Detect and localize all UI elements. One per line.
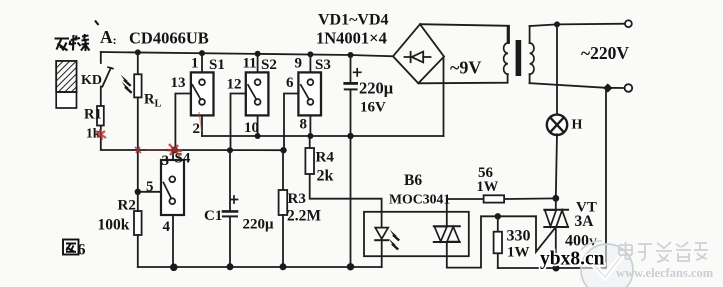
watermark disc elecfans [581,241,633,287]
node R3 pin6 junction [280,147,286,153]
wire to S4 pin5 [138,191,161,193]
svg-text:1W: 1W [477,179,499,195]
terminal 220V bottom [625,84,633,92]
svg-text:11: 11 [243,56,257,72]
svg-text:1W: 1W [507,245,530,261]
triac VT [555,198,557,210]
node S2 pin11 top [255,51,261,57]
wire 56R row [447,197,556,200]
wire lamp branch down [556,24,558,115]
svg-text:9: 9 [295,56,303,72]
svg-text:~220V: ~220V [581,43,629,63]
wire S1 pin13 [175,94,191,151]
node S3 pin8 R4 [307,133,313,139]
node C2 top [348,52,354,58]
node S4 pin3 junction [171,147,178,154]
node VT bottom [553,265,560,272]
wire RL down to R2 junction [137,97,139,191]
wire MOC triac MT1 loop [447,216,536,267]
resistor R3 [282,150,284,190]
switch S4 [161,160,184,215]
wire top bus [101,52,393,56]
svg-text:R4: R4 [316,150,335,166]
wire bridge AC bottom to transformer [418,74,507,83]
svg-text:RL: RL [144,92,162,110]
node VT top junction [552,195,559,202]
svg-text:3: 3 [162,153,170,169]
svg-text:~9V: ~9V [450,58,481,78]
bridge rectifier VD1-VD4 [393,24,444,83]
switch S1 [201,53,203,72]
svg-text:220μ: 220μ [243,217,275,233]
arrows light onto RL [121,75,133,94]
node C1 pin12 junction [227,147,233,153]
lamp H [547,115,567,135]
wire R1 to line150 [101,126,138,151]
photoresistor RL wire [137,52,139,74]
svg-text:R3: R3 [288,191,306,207]
svg-text:KD: KD [81,73,102,88]
magnet box [56,61,76,108]
svg-text:8: 8 [300,117,308,133]
node C2 bottom line136 [347,133,353,139]
tick mark top left [95,21,99,26]
node C1 bottom [227,263,234,270]
svg-text:3A: 3A [575,213,595,230]
svg-text:ybx8.cn: ybx8.cn [540,249,605,270]
capacitor C1 [229,150,231,211]
wire bottom right bus [498,88,606,268]
svg-text:6: 6 [286,75,294,91]
switch S2 [257,54,259,73]
svg-text:12: 12 [227,77,242,93]
svg-text:13: 13 [171,75,186,91]
terminal 220V top [625,20,632,27]
wire R4 to MOC LED [310,174,382,212]
node diamond junction [603,83,612,92]
wire R2 leads [137,192,139,267]
svg-text:4: 4 [163,219,171,235]
svg-text:CD4066UB: CD4066UB [129,29,209,48]
transformer T [504,43,508,74]
wire line150 [138,149,284,151]
svg-text:1: 1 [191,56,199,72]
svg-text:www.elecfans.com: www.elecfans.com [616,266,714,280]
node RL top [135,49,141,55]
svg-text:A:: A: [100,27,117,47]
switch KD [100,52,102,63]
wire line136 to bridge DC- [443,57,445,136]
photoresistor RL [134,74,141,97]
resistor R2 [134,211,142,235]
triac inside MOC [446,199,448,226]
label tu6 (figure 6) hand-drawn [63,240,86,259]
wire S4 pin4 down [172,215,174,267]
svg-text:2: 2 [193,121,201,137]
wire primary top to 220V terminal [530,24,628,26]
switch S3 [309,54,311,72]
svg-text:400V: 400V [565,233,597,250]
capacitor C2 220u16V [350,55,352,83]
red pen artifacts [96,112,202,156]
svg-text:VD1~VD4: VD1~VD4 [318,12,389,29]
svg-text:S1: S1 [209,57,225,73]
wire S3 pin8 down [309,115,311,136]
svg-text:B6: B6 [404,172,422,189]
svg-text:2k: 2k [317,168,334,185]
svg-text:MOC3041: MOC3041 [389,192,450,207]
wire line136 [202,135,444,137]
node 330 top [495,213,501,219]
wire primary bottom to 220V terminal [530,83,624,88]
wire S2 pin12 [231,94,246,151]
svg-text:16V: 16V [360,100,386,116]
wire bottom main bus [138,266,382,268]
node lamp branch [554,21,560,27]
node S2 pin10 [255,133,261,139]
svg-text:H: H [572,118,583,133]
svg-text:2.2M: 2.2M [287,208,321,225]
watermark dianzifashaoyou gray text [619,242,708,262]
node R3 bottom [280,263,287,270]
svg-text:S2: S2 [261,57,277,73]
arrows LED light [389,230,401,251]
node S1 pin1 top [199,50,205,56]
gate wire VT [536,216,556,252]
optocoupler B6 MOC3041 box [364,212,469,256]
wire KD to R1 [100,87,102,107]
svg-text:C1: C1 [204,208,222,224]
wire S3 pin6 [284,94,298,151]
svg-text:10: 10 [244,120,259,136]
diode inside bridge [405,56,431,58]
svg-text:S3: S3 [315,57,331,73]
wire bridge AC top to transformer [420,24,509,43]
svg-text:R2: R2 [118,198,136,214]
LED inside MOC [381,212,383,228]
node S4 pin4 bottom [170,264,178,272]
svg-text:6: 6 [78,242,86,259]
svg-text:1N4001×4: 1N4001×4 [316,29,387,48]
wire S1 pin2 down [201,115,203,136]
node R2 top / S4 pin5 junction [135,189,141,195]
svg-text:100k: 100k [98,217,130,234]
svg-text:5: 5 [146,179,154,195]
resistor 56 1W [484,195,505,202]
wire lamp to VT [556,134,557,198]
node C2 bottom bus [347,263,354,270]
wire S2 pin10 down [257,115,259,136]
label citie (magnet) hand-drawn [55,34,90,51]
resistor 330 1W [497,216,499,231]
node S3 pin9 top [307,51,313,57]
resistor R4 [309,136,311,148]
svg-text:220μ: 220μ [359,79,394,98]
svg-text:R1: R1 [84,107,102,123]
svg-text:330: 330 [507,228,531,245]
resistor R1 [97,106,104,126]
